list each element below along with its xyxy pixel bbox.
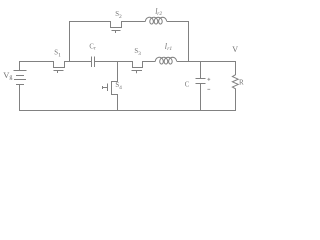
svg-text:Cr: Cr [89, 44, 96, 52]
svg-text:Vg: Vg [3, 70, 12, 80]
svg-text:R: R [239, 79, 244, 87]
svg-text:S2: S2 [115, 11, 122, 20]
svg-text:S1: S1 [54, 50, 61, 59]
svg-text:S4: S4 [115, 82, 122, 91]
svg-text:r2: r2 [157, 11, 162, 17]
svg-text:C: C [185, 81, 190, 88]
svg-text:r1: r1 [167, 46, 172, 52]
svg-text:S3: S3 [134, 48, 141, 57]
svg-text:V: V [232, 45, 238, 54]
